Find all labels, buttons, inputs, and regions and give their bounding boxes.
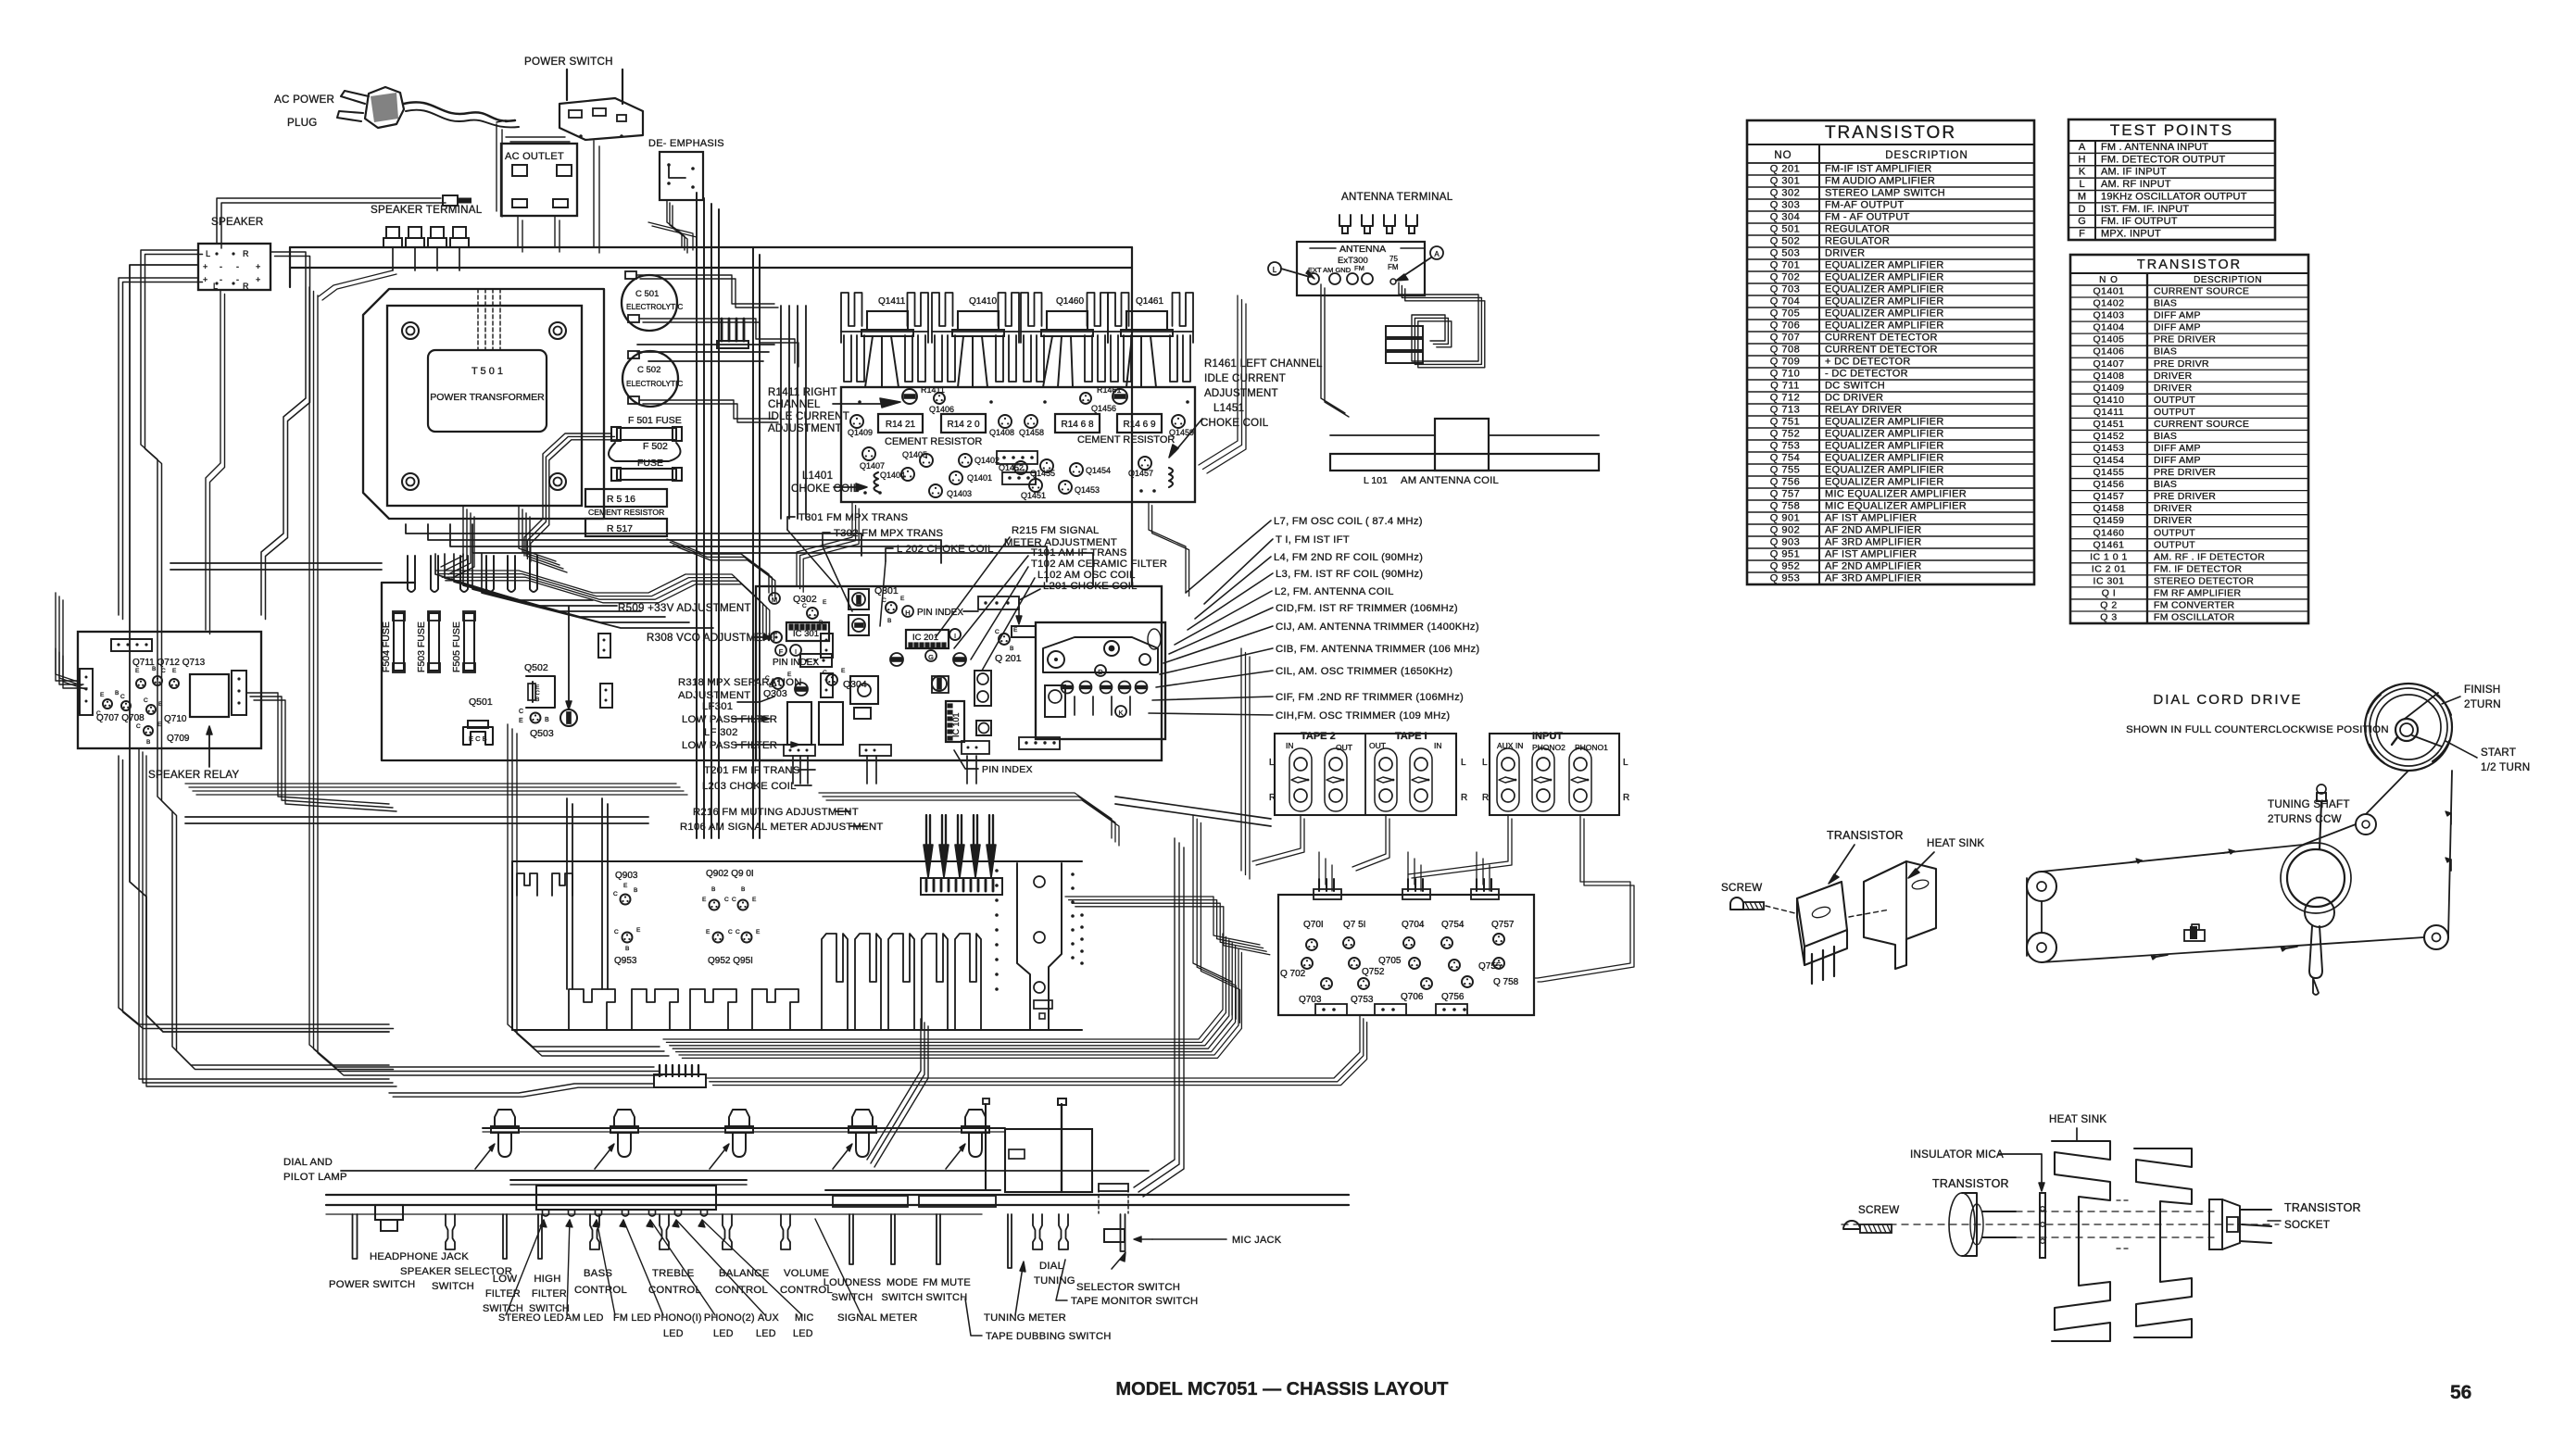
svg-text:E: E [172, 668, 177, 674]
svg-text:PRE DRIVER: PRE DRIVER [2154, 334, 2216, 345]
svg-text:IN: IN [1286, 741, 1294, 750]
svg-text:2TURN: 2TURN [2464, 698, 2501, 710]
svg-text:Q 707: Q 707 [1770, 333, 1800, 344]
svg-text:B: B [545, 717, 549, 723]
svg-text:MODE: MODE [886, 1277, 918, 1288]
trimmer R509 on PSU board [560, 709, 577, 726]
svg-text:Q1458: Q1458 [2093, 503, 2124, 514]
svg-text:ANTENNA: ANTENNA [1339, 244, 1386, 255]
choke coil L1401 symbol left [874, 472, 879, 492]
svg-text:E C B: E C B [469, 734, 487, 743]
svg-text:L: L [2079, 179, 2084, 190]
svg-text:CEMENT RESISTOR: CEMENT RESISTOR [1077, 434, 1175, 446]
circled I small [949, 629, 961, 640]
front panel long rails [326, 1194, 1349, 1196]
wire stubs join [780, 396, 782, 519]
chassis left vertical edge [289, 247, 291, 287]
svg-text:CIF, FM .2ND RF TRIMMER (10: CIF, FM .2ND RF TRIMMER (106MHz) [1276, 692, 1464, 703]
svg-text:CID,FM. IST RF TRIMMER (106: CID,FM. IST RF TRIMMER (106MHz) [1276, 603, 1458, 614]
svg-text:+: + [203, 262, 207, 271]
svg-text:C: C [519, 709, 523, 715]
antenna terminal board EXT300 [1297, 242, 1425, 295]
svg-text:AF 3RD AMPLIFIER: AF 3RD AMPLIFIER [1825, 573, 1921, 584]
svg-text:Q753: Q753 [1351, 995, 1374, 1005]
input jacks panel [1490, 734, 1619, 815]
svg-text:Q 708: Q 708 [1770, 345, 1800, 356]
harness left of PSU down [309, 287, 654, 1067]
vertical harness pair near amp board [752, 247, 754, 838]
svg-text:Q1406: Q1406 [2093, 346, 2124, 358]
svg-text:R: R [243, 282, 249, 291]
svg-text:Q 701: Q 701 [1770, 260, 1800, 271]
transistors Q707 Q708 [103, 699, 112, 709]
svg-text:C 502: C 502 [637, 365, 660, 375]
svg-text:E: E [752, 897, 757, 903]
small connector combs on board top edge [517, 873, 537, 896]
svg-text:Q 301: Q 301 [1770, 176, 1800, 187]
svg-text:Q 709: Q 709 [1770, 357, 1800, 368]
tuning shaft top stem [2320, 802, 2321, 849]
capacitor C501 electrolytic [622, 275, 677, 331]
svg-text:2TURNS CCW: 2TURNS CCW [2268, 813, 2342, 825]
transistor Q1402 [959, 454, 972, 467]
svg-text:POWER TRANSFORMER: POWER TRANSFORMER [430, 392, 545, 403]
C502 wires right [639, 400, 774, 419]
svg-text:R: R [1623, 793, 1629, 803]
svg-text:AF 2ND AMPLIFIER: AF 2ND AMPLIFIER [1825, 525, 1921, 536]
svg-text:Q303: Q303 [763, 688, 787, 699]
harness connector left [654, 1074, 706, 1087]
screw drawing (exploded view) [1843, 1221, 1860, 1229]
equalizer board top connectors [1314, 889, 1341, 899]
svg-text:Q 502: Q 502 [1770, 236, 1800, 247]
trimmers right of IC101 [974, 671, 991, 706]
svg-text:MIC JACK: MIC JACK [1232, 1235, 1282, 1246]
svg-text:FINISH: FINISH [2464, 684, 2501, 696]
svg-text:CHOKE COIL: CHOKE COIL [791, 483, 860, 495]
svg-text:DIFF AMP: DIFF AMP [2154, 310, 2201, 321]
speaker relay board outline [78, 632, 261, 748]
svg-text:Q1410: Q1410 [969, 296, 997, 307]
svg-text:Q 501: Q 501 [1770, 224, 1800, 235]
svg-text:Q7 5I: Q7 5I [1343, 920, 1365, 930]
bass control shaft [590, 1214, 599, 1249]
table: transistor list Q1401-Q3 [2070, 255, 2308, 623]
svg-text:Q1408: Q1408 [2093, 370, 2124, 382]
svg-text:C: C [614, 929, 619, 935]
resistor R1469 [1117, 414, 1162, 433]
transistor Q1455 [1040, 459, 1053, 472]
svg-text:MPX. INPUT: MPX. INPUT [2101, 229, 2161, 240]
svg-text:B: B [146, 739, 150, 746]
crossing wires below R517 [667, 539, 769, 593]
svg-text:L4, FM 2ND RF COIL (90MHz): L4, FM 2ND RF COIL (90MHz) [1274, 552, 1423, 563]
speaker selector shaft [446, 1214, 455, 1249]
svg-text:Q953: Q953 [614, 956, 637, 966]
svg-text:Q 503: Q 503 [1770, 248, 1800, 259]
wires down from speaker block [206, 290, 220, 630]
jack tape1 out [1375, 748, 1397, 811]
svg-text:SPEAKER RELAY: SPEAKER RELAY [148, 769, 239, 781]
svg-text:R: R [243, 249, 249, 258]
speaker terminal post drops [392, 247, 394, 270]
svg-text:MIC: MIC [795, 1312, 814, 1324]
mode switch shaft [891, 1214, 895, 1264]
svg-text:MODEL MC7051 — CHASSIS LAYOUT: MODEL MC7051 — CHASSIS LAYOUT [1116, 1379, 1449, 1400]
transistor Q709 [144, 726, 153, 735]
transistor Q1407 [862, 447, 875, 460]
svg-text:START: START [2481, 747, 2516, 759]
svg-text:-: - [220, 262, 222, 271]
svg-text:Q1405: Q1405 [902, 450, 927, 459]
svg-text:Q1459: Q1459 [2093, 515, 2124, 526]
power transformer T501 outer plate [363, 289, 604, 519]
svg-text:C: C [728, 929, 733, 935]
svg-text:DIAL AND: DIAL AND [283, 1157, 333, 1168]
svg-text:Q902 Q9 0I: Q902 Q9 0I [706, 869, 754, 879]
svg-text:Q711 Q712 Q713: Q711 Q712 Q713 [132, 658, 206, 668]
svg-text:TRANSISTOR: TRANSISTOR [1827, 829, 1904, 842]
svg-text:1/2 TURN: 1/2 TURN [2481, 761, 2530, 773]
relay board connector right [232, 671, 246, 715]
svg-text:Q 901: Q 901 [1770, 513, 1800, 524]
svg-text:CONTROL: CONTROL [574, 1285, 627, 1296]
jack tape2 in [1289, 748, 1312, 811]
svg-text:FM OSCILLATOR: FM OSCILLATOR [2154, 612, 2235, 623]
transistor leads [1811, 954, 1813, 984]
PSU board bottom connectors [598, 634, 610, 658]
speaker wires long left run inner [119, 278, 198, 615]
jack tape2 out [1325, 748, 1347, 811]
svg-text:Q1456: Q1456 [2093, 479, 2124, 490]
svg-text:Q 713: Q 713 [1770, 405, 1800, 416]
table: test points [2068, 119, 2275, 240]
svg-text:F 502: F 502 [643, 441, 668, 452]
svg-text:LED: LED [793, 1328, 813, 1339]
heat sink zigzag left [2052, 1141, 2110, 1341]
IC301 with pin index [786, 622, 829, 641]
svg-text:DRIVER: DRIVER [1825, 248, 1865, 259]
svg-text:ELECTROLYTIC: ELECTROLYTIC [626, 303, 683, 311]
svg-text:Q1402: Q1402 [974, 456, 1000, 465]
svg-text:Q1461: Q1461 [1136, 296, 1163, 307]
svg-text:C: C [732, 897, 736, 903]
svg-text:LF 302: LF 302 [704, 727, 738, 738]
tuner board bottom connector drops [792, 756, 794, 784]
transistor Q1406 [934, 393, 945, 404]
svg-text:IDLE CURRENT: IDLE CURRENT [1204, 373, 1286, 384]
svg-text:AM LED: AM LED [565, 1312, 604, 1324]
svg-text:ELECTROLYTIC: ELECTROLYTIC [626, 380, 683, 388]
svg-text:R1461: R1461 [1097, 385, 1122, 395]
transistors Q711 Q712 Q713 [136, 679, 145, 688]
transformer fan-out wires [435, 554, 593, 600]
dial cord belt path [2042, 824, 2356, 872]
svg-text:MIC EQUALIZER AMPLIFIER: MIC EQUALIZER AMPLIFIER [1825, 501, 1967, 512]
svg-text:SHOWN IN FULL COUNTERCLOCKW: SHOWN IN FULL COUNTERCLOCKWISE POSITION [2126, 724, 2389, 735]
svg-text:FM. IF DETECTOR: FM. IF DETECTOR [2154, 563, 2242, 574]
svg-text:FM . ANTENNA INPUT: FM . ANTENNA INPUT [2101, 142, 2208, 153]
svg-text:I: I [795, 647, 797, 656]
transistor Q1408 [999, 415, 1012, 428]
svg-text:REGULATOR: REGULATOR [1825, 224, 1890, 235]
svg-text:AF 3RD AMPLIFIER: AF 3RD AMPLIFIER [1825, 537, 1921, 548]
svg-text:AF 2ND AMPLIFIER: AF 2ND AMPLIFIER [1825, 561, 1921, 572]
svg-text:B: B [625, 946, 629, 952]
svg-text:E: E [702, 897, 707, 903]
cord tension spring [2184, 930, 2205, 941]
svg-text:Q 2: Q 2 [2100, 599, 2117, 610]
svg-text:CURRENT DETECTOR: CURRENT DETECTOR [1825, 333, 1938, 344]
svg-text:Q754: Q754 [1441, 920, 1465, 930]
svg-text:Q 705: Q 705 [1770, 308, 1800, 320]
svg-text:Q1455: Q1455 [2093, 467, 2124, 478]
svg-text:Q 755: Q 755 [1770, 465, 1800, 476]
jack phono2 [1532, 748, 1554, 811]
svg-text:DRIVER: DRIVER [2154, 370, 2193, 382]
svg-text:Q757: Q757 [1491, 920, 1515, 930]
svg-text:POWER SWITCH: POWER SWITCH [524, 56, 613, 68]
svg-text:STEREO DETECTOR: STEREO DETECTOR [2154, 575, 2254, 586]
svg-text:CIJ, AM. ANTENNA TRIMMER (1: CIJ, AM. ANTENNA TRIMMER (1400KHz) [1276, 621, 1479, 633]
svg-text:E: E [519, 718, 523, 724]
svg-text:Q 902: Q 902 [1770, 525, 1800, 536]
dial tuning shaft lower [1033, 1214, 1042, 1249]
C501 wires right [636, 275, 774, 304]
transistor Q953 [622, 933, 633, 943]
svg-text:R14 6 8: R14 6 8 [1061, 420, 1093, 430]
svg-text:Q I: Q I [2102, 587, 2117, 598]
PSU board top pin stubs [408, 556, 415, 592]
svg-text:PILOT LAMP: PILOT LAMP [283, 1172, 347, 1183]
svg-text:F505 FUSE: F505 FUSE [451, 621, 462, 672]
AC outlet [501, 144, 577, 216]
svg-text:Q1405: Q1405 [2093, 334, 2124, 345]
transistor Q1459 [1172, 415, 1185, 428]
svg-text:C: C [995, 629, 1000, 635]
svg-text:K: K [1118, 709, 1123, 717]
svg-text:Q1401: Q1401 [967, 473, 992, 483]
tape monitor shaft [1059, 1214, 1068, 1249]
heat sink zigzag right [2134, 1148, 2192, 1337]
svg-text:IC 301: IC 301 [2093, 575, 2125, 586]
svg-text:EQUALIZER AMPLIFIER: EQUALIZER AMPLIFIER [1825, 320, 1944, 332]
svg-text:PLUG: PLUG [287, 117, 318, 129]
svg-text:DIFF AMP: DIFF AMP [2154, 455, 2201, 466]
svg-text:EQUALIZER AMPLIFIER: EQUALIZER AMPLIFIER [1825, 308, 1944, 320]
label leader lines bottom cluster [506, 1220, 544, 1315]
svg-text:Q1457: Q1457 [2093, 491, 2124, 502]
svg-text:Q1455: Q1455 [1030, 469, 1055, 478]
svg-text:EQUALIZER AMPLIFIER: EQUALIZER AMPLIFIER [1825, 465, 1944, 476]
svg-text:LF301: LF301 [702, 701, 733, 712]
dial tuning shaft [1061, 1104, 1062, 1192]
svg-text:Q1401: Q1401 [2093, 286, 2124, 297]
jack tape1 in [1410, 748, 1432, 811]
svg-text:R1411 RIGHT: R1411 RIGHT [768, 387, 837, 398]
svg-text:ADJUSTMENT: ADJUSTMENT [768, 423, 842, 434]
transistor Q1458 [1025, 415, 1037, 428]
left wires to relay connector [56, 593, 78, 682]
svg-text:CONTROL: CONTROL [648, 1285, 701, 1296]
mic jack stub [1104, 1229, 1125, 1242]
equalizer transistors [1306, 939, 1317, 950]
svg-text:F 501 FUSE: F 501 FUSE [628, 415, 682, 426]
cement resistor R517 [585, 519, 667, 536]
resistor R1420 [941, 414, 986, 433]
transformer lead dashes [477, 289, 479, 350]
svg-text:TUNING METER: TUNING METER [984, 1312, 1066, 1324]
svg-text:Q755: Q755 [1478, 961, 1502, 972]
outlet wiring loop [496, 124, 497, 211]
main vertical harness center-left [696, 193, 698, 838]
svg-text:Q 302: Q 302 [1770, 188, 1800, 199]
svg-text:Q70I: Q70I [1303, 920, 1324, 930]
svg-text:R509 +33V ADJUSTMENT: R509 +33V ADJUSTMENT [618, 602, 751, 614]
drum cord hooks [2405, 693, 2438, 719]
svg-text:C: C [136, 723, 141, 730]
left idler pulleys [2027, 872, 2056, 901]
svg-text:Q709: Q709 [167, 734, 190, 744]
svg-text:CIL, AM. OSC TRIMMER (1650K: CIL, AM. OSC TRIMMER (1650KHz) [1276, 666, 1452, 677]
svg-text:R1461 LEFT CHANNEL: R1461 LEFT CHANNEL [1204, 358, 1323, 370]
svg-text:Q 712: Q 712 [1770, 393, 1800, 404]
svg-text:C: C [120, 694, 125, 700]
wires from de-emphasis bundle join verticals [648, 222, 693, 250]
svg-text:Q 756: Q 756 [1770, 477, 1800, 488]
transistors Q952 Q951 [713, 933, 723, 943]
svg-text:Q1409: Q1409 [848, 428, 873, 437]
pilot lamp [852, 1110, 873, 1126]
svg-text:BIAS: BIAS [2154, 298, 2177, 309]
svg-text:R106 AM SIGNAL METER ADJUSTMEN: R106 AM SIGNAL METER ADJUSTMENT [680, 822, 884, 833]
svg-text:E: E [706, 929, 710, 935]
svg-text:Q752: Q752 [1362, 967, 1385, 977]
right lower idler pulley [2424, 925, 2448, 949]
power amplifier board outline [841, 387, 1195, 502]
speaker wires long left run outer [141, 250, 389, 1065]
svg-text:Q1406: Q1406 [929, 405, 954, 414]
svg-text:E: E [823, 599, 827, 606]
svg-text:C 501: C 501 [635, 289, 659, 299]
svg-text:SCREW: SCREW [1721, 882, 1762, 894]
horizontal wires caps to board [637, 344, 774, 345]
svg-text:NO: NO [1774, 150, 1792, 161]
callout leader lines to front end [1186, 521, 1271, 593]
transformer mounting screws [402, 322, 419, 339]
long wires right side to amp [1240, 648, 1242, 871]
svg-text:B: B [634, 887, 637, 894]
svg-text:A: A [1434, 250, 1440, 258]
power switch shaft [353, 1214, 358, 1259]
svg-text:Q1453: Q1453 [1075, 485, 1100, 495]
svg-text:B: B [115, 690, 119, 697]
svg-text:LED: LED [756, 1328, 776, 1339]
svg-text:TAPE I: TAPE I [1395, 731, 1427, 742]
svg-text:Q1461: Q1461 [2093, 539, 2124, 550]
svg-text:FM RF AMPLIFIER: FM RF AMPLIFIER [2154, 587, 2241, 598]
4 dot strip tuner [978, 596, 1019, 609]
extra nested left loop [130, 265, 389, 1032]
svg-text:LOUDNESS: LOUDNESS [824, 1277, 882, 1288]
wires left into PSU board [170, 562, 382, 564]
svg-text:DIAL: DIAL [1039, 1261, 1063, 1272]
dot connector strips on amp board [997, 451, 1037, 464]
svg-text:HEADPHONE JACK: HEADPHONE JACK [370, 1251, 469, 1262]
antenna lead spiral [1399, 282, 1478, 361]
connector bar top of harness [717, 341, 748, 348]
svg-text:C: C [144, 697, 148, 704]
svg-text:CEMENT RESISTOR: CEMENT RESISTOR [588, 508, 664, 517]
svg-text:Q756: Q756 [1441, 992, 1465, 1002]
svg-text:Q 706: Q 706 [1770, 320, 1800, 332]
svg-text:PRE DRIVER: PRE DRIVER [2154, 491, 2216, 502]
tuning meter bar [825, 1189, 1000, 1191]
svg-text:C: C [802, 603, 807, 609]
pilot lamp [965, 1110, 986, 1126]
svg-text:HEAT SINK: HEAT SINK [2049, 1113, 2106, 1125]
circled K [1115, 706, 1126, 717]
board connector header with black fan wires [921, 878, 1002, 895]
wires antenna block down to amp board [1199, 295, 1238, 465]
svg-text:F503 FUSE: F503 FUSE [416, 621, 427, 672]
svg-text:F504 FUSE: F504 FUSE [381, 621, 392, 672]
high filter shaft [538, 1214, 542, 1259]
svg-text:R216 FM MUTING ADJUSTMENT: R216 FM MUTING ADJUSTMENT [693, 807, 859, 818]
svg-text:Q1460: Q1460 [1056, 296, 1084, 307]
svg-text:G: G [928, 653, 934, 661]
pilot lamp [614, 1110, 635, 1126]
svg-text:R: R [1482, 793, 1489, 803]
equalizer amplifier board outline [1278, 895, 1534, 1015]
svg-text:Q952 Q95I: Q952 Q95I [708, 956, 753, 966]
svg-text:Q 751: Q 751 [1770, 417, 1800, 428]
svg-text:Q 754: Q 754 [1770, 453, 1800, 464]
svg-text:+ DC DETECTOR: + DC DETECTOR [1825, 357, 1911, 368]
svg-text:Q 304: Q 304 [1770, 212, 1800, 223]
svg-text:Q 702: Q 702 [1770, 272, 1800, 283]
svg-text:R: R [1461, 793, 1467, 803]
svg-text:Q1403: Q1403 [947, 489, 972, 498]
long bus wires transformer area to tuner [428, 524, 941, 563]
dot columns near bracket [995, 869, 999, 872]
speaker wires right side loop [261, 252, 306, 615]
transistor Q1409 [850, 415, 863, 428]
wires below relay board to center [185, 816, 648, 818]
svg-text:CURRENT DETECTOR: CURRENT DETECTOR [1825, 345, 1938, 356]
svg-text:SWITCH: SWITCH [882, 1292, 924, 1303]
svg-text:DIFF AMP: DIFF AMP [2154, 443, 2201, 454]
svg-text:DRIVER: DRIVER [2154, 383, 2193, 394]
svg-text:C: C [823, 670, 827, 676]
AM antenna coil L101 bar [1330, 454, 1599, 471]
svg-text:L201 CHOKE COIL: L201 CHOKE COIL [1043, 581, 1138, 592]
svg-text:Q 710: Q 710 [1770, 369, 1800, 380]
svg-text:B: B [535, 697, 539, 703]
svg-text:POWER SWITCH: POWER SWITCH [329, 1279, 415, 1290]
svg-text:L: L [1623, 758, 1628, 768]
circled A test point [1430, 246, 1443, 259]
svg-text:FM. DETECTOR OUTPUT: FM. DETECTOR OUTPUT [2101, 154, 2225, 165]
4-dot strip lower [1019, 737, 1060, 749]
svg-text:I: I [954, 632, 956, 640]
svg-text:HEAT SINK: HEAT SINK [1927, 837, 1984, 849]
harness bottom left diagonal [389, 1084, 654, 1093]
svg-text:N O: N O [2099, 275, 2119, 285]
tuning meter pointer [983, 1098, 989, 1104]
svg-text:H: H [2079, 154, 2086, 165]
svg-text:Q 757: Q 757 [1770, 489, 1800, 500]
